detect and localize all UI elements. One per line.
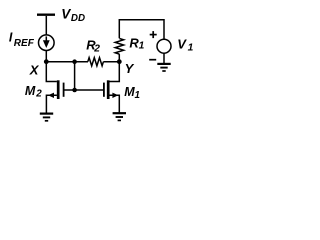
svg-text:1: 1 (188, 43, 194, 54)
svg-text:REF: REF (14, 38, 35, 49)
label minus (149, 59, 156, 61)
label Y (125, 61, 135, 76)
svg-text:2: 2 (93, 44, 100, 55)
svg-text:2: 2 (35, 89, 42, 100)
junction dot gate tap on top wire (72, 59, 77, 64)
transistor M2 (48, 80, 64, 99)
svg-text:I: I (9, 30, 13, 44)
voltage source V1 (157, 39, 171, 53)
svg-text:M: M (25, 84, 36, 98)
svg-text:V: V (61, 6, 71, 21)
svg-text:V: V (177, 37, 187, 52)
wire IREF to node X (45, 51, 47, 62)
label M1 (124, 85, 140, 101)
wire M1 drain to Y (110, 62, 120, 82)
wire M1 source to ground (110, 95, 120, 112)
label VDD (61, 6, 85, 24)
label R2 (86, 37, 100, 54)
resistor R2 (88, 58, 104, 66)
transistor M1 (104, 80, 119, 99)
wire R1 top to V1 (119, 20, 164, 40)
label plus (150, 31, 157, 38)
wire R2 to node Y (103, 61, 119, 63)
ground V1 (157, 64, 170, 71)
wire gate M2 to gate M1 (65, 89, 104, 91)
label X (29, 63, 40, 78)
label R1 (129, 36, 144, 52)
label M2 (25, 84, 42, 100)
node X junction dot (44, 59, 49, 64)
power VDD symbol (37, 13, 55, 15)
wire X to R2 (46, 61, 88, 63)
wire Y to R1 (118, 54, 120, 62)
wire gate tap vertical (74, 62, 76, 90)
resistor R1 (115, 39, 123, 55)
junction dot on gate wire (72, 88, 77, 93)
label IREF (9, 30, 35, 49)
wire M2 source to ground (46, 95, 57, 113)
svg-text:DD: DD (71, 13, 85, 24)
svg-text:1: 1 (139, 41, 145, 52)
node Y junction dot (117, 59, 122, 64)
svg-text:1: 1 (135, 90, 140, 101)
current source IREF (39, 35, 55, 51)
svg-text:Y: Y (125, 61, 135, 76)
svg-text:X: X (29, 63, 40, 78)
wire M2 drain from X (46, 62, 57, 82)
wire VDD to IREF (45, 16, 47, 35)
wire V1 to ground (163, 53, 165, 63)
ground M2 (40, 114, 53, 121)
ground M1 (113, 113, 126, 120)
label V1 (177, 37, 193, 54)
